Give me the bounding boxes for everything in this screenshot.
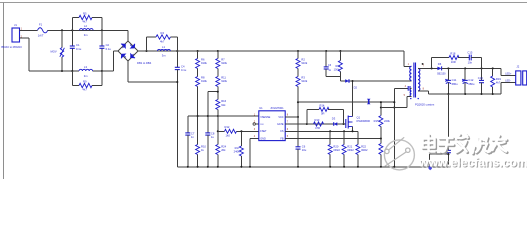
node: bottom rail junctions (61, 70, 63, 72)
wire: column R6/R8 down to R10 (197, 87, 199, 145)
svg-text:MOV: MOV (51, 50, 57, 54)
svg-text:GND: GND (260, 137, 266, 140)
connector J1 (1, 23, 22, 49)
svg-text:R15: R15 (374, 119, 379, 123)
wire: FB/aux lower horizontal (381, 107, 407, 109)
wire: aux bottom return (407, 97, 412, 108)
svg-text:R19: R19 (496, 77, 501, 81)
net flag on VCC bus (367, 99, 371, 105)
wire: right X-cap column vertical (101, 18, 103, 72)
resistor R1 (100k clamp) (334, 51, 343, 77)
node: VCC pin junction (297, 116, 299, 118)
svg-text:IPA60R600: IPA60R600 (357, 119, 371, 123)
resistor R20 (0R22 sense) (328, 131, 340, 167)
svg-text:SB2100: SB2100 (437, 73, 446, 76)
node: fuse/MOV junction (61, 29, 63, 31)
svg-text:R12: R12 (225, 125, 230, 129)
capacitor C8 (1u) (205, 116, 215, 167)
svg-text:Q1: Q1 (357, 115, 361, 119)
wire: bus corner to transformer pin 1 (404, 51, 412, 66)
transformer T1 secondary winding (418, 68, 420, 90)
svg-text:1A/T: 1A/T (38, 34, 44, 38)
wire: FB row to R15 (285, 138, 381, 140)
resistor R12 (1k0) on FSET row (218, 125, 259, 138)
sheet frame left line (3, 3, 5, 180)
svg-text:10n: 10n (468, 60, 473, 64)
wire: secondary top to output (418, 67, 437, 69)
svg-text:LED+: LED+ (505, 73, 512, 76)
fuse F1 (38, 22, 48, 37)
capacitor C13 (100n) (478, 68, 484, 94)
svg-text:680u: 680u (452, 82, 458, 86)
resistor R8 (910k) (196, 69, 208, 87)
svg-text:0R22: 0R22 (333, 148, 340, 152)
varistor MOV (51, 48, 65, 58)
svg-text:R17: R17 (235, 146, 240, 150)
svg-text:R13: R13 (315, 118, 320, 122)
svg-text:C8: C8 (211, 131, 215, 135)
capacitor C14 (Y-cap) (446, 94, 451, 167)
svg-text:4k7: 4k7 (83, 88, 88, 92)
resistor R17 (240k) (234, 131, 244, 167)
resistor R15 (220k) (374, 102, 391, 167)
wire: aux cap column down to ground (393, 88, 395, 167)
svg-text:910k: 910k (221, 79, 227, 83)
watermark chinese characters (423, 135, 508, 155)
node: CS row junctions (329, 130, 331, 132)
resistor R3 (910k startup) (296, 69, 308, 87)
transformer T1 auxiliary winding (410, 88, 411, 96)
capacitor C6 (10n VCC decoupling) (296, 117, 307, 167)
svg-text:C15: C15 (467, 51, 472, 55)
node: VSENSE net junctions (197, 115, 199, 117)
wire: LED+ feed to J2 (501, 68, 516, 75)
wire: clamp bottom node (326, 77, 340, 82)
svg-text:R4: R4 (161, 31, 165, 35)
svg-text:L2: L2 (84, 24, 87, 28)
capacitor C4 (0.1u bus filter) (175, 51, 187, 167)
wire: drain line to transformer primary (340, 80, 411, 82)
node: top X-cap junction (71, 29, 73, 31)
resistor R16 (91k) (216, 87, 227, 110)
svg-text:R11: R11 (221, 76, 226, 80)
svg-text:C13: C13 (478, 76, 483, 80)
wire: ground jog to Y-cap column (430, 154, 449, 167)
resistor R17 (24k) (216, 144, 227, 166)
svg-text:L1: L1 (162, 45, 165, 49)
svg-text:R8: R8 (201, 76, 205, 80)
svg-text:GATE: GATE (277, 123, 284, 126)
svg-text:D3: D3 (332, 116, 336, 120)
svg-text:R24: R24 (221, 144, 226, 148)
svg-text:R14: R14 (320, 103, 325, 107)
node: no-connect circle on pin2 (253, 123, 259, 125)
wire: primary ground bus (177, 166, 448, 168)
node: gate network nodes (306, 123, 308, 125)
svg-text:4k7: 4k7 (160, 40, 165, 44)
svg-text:FB: FB (280, 137, 284, 140)
node: col2 junctions (217, 91, 219, 93)
wire: AC neutral bottom rail (20, 38, 114, 71)
capacitor C15 (output snubber) (467, 51, 481, 69)
node: ground bus junctions (187, 166, 189, 168)
svg-text:0.1u: 0.1u (76, 47, 82, 51)
svg-text:0R: 0R (321, 112, 324, 116)
svg-text:R10: R10 (201, 144, 206, 148)
capacitor C11 (680u electrolytic) (445, 68, 458, 94)
watermark logo circle (384, 137, 414, 170)
inductor L1 (3m) (158, 45, 171, 58)
resistor R6 (910k) (196, 51, 208, 69)
wire: left X-cap column vertical (71, 18, 73, 72)
svg-text:4k7: 4k7 (83, 20, 88, 24)
resistor R4 (4k7 parallel with L1) (147, 31, 178, 51)
resistor R2 (910k startup) (296, 51, 308, 69)
svg-text:VCC: VCC (278, 116, 283, 119)
svg-text:ZXLM7001: ZXLM7001 (271, 106, 285, 110)
svg-text:R7: R7 (221, 58, 225, 62)
svg-text:R22: R22 (361, 144, 366, 148)
svg-text:C12: C12 (468, 78, 473, 82)
svg-text:PQ2620 custom: PQ2620 custom (415, 103, 435, 107)
watermark url text (418, 155, 527, 170)
resistor R11 (910k) (216, 69, 228, 87)
svg-text:4k7: 4k7 (496, 81, 501, 85)
svg-text:R6: R6 (201, 58, 205, 62)
svg-text:10u: 10u (302, 148, 307, 152)
svg-text:0.1u: 0.1u (181, 68, 187, 72)
resistor R5 (4k7 damping, top) (72, 11, 102, 23)
wire: MOSFET source to CS row (352, 127, 354, 132)
capacitor C1 (X-cap 0.1u) (70, 43, 82, 51)
svg-text:R21: R21 (347, 144, 352, 148)
svg-text:47R: 47R (315, 126, 320, 130)
node: bridge DC- joins C4 column (176, 81, 178, 83)
svg-text:910k: 910k (221, 61, 227, 65)
resistor R10 (1k) (196, 144, 207, 166)
resistor R7 (910k) (216, 51, 228, 69)
svg-text:1k0: 1k0 (226, 134, 231, 138)
node: output rail junctions (431, 67, 433, 69)
svg-text:0R22: 0R22 (361, 148, 368, 152)
wire: MOSFET drain vertical to drain line (352, 81, 354, 117)
resistor R21 (0R22 sense) (342, 131, 354, 167)
svg-text:R2: R2 (301, 58, 305, 62)
capacitor C2 (X-cap 0.1u) (99, 43, 111, 51)
wire: CS row (285, 130, 358, 132)
svg-text:D2: D2 (354, 85, 358, 89)
capacitor C12 (680u electrolytic) (462, 68, 475, 94)
node: aux column junctions (393, 101, 395, 103)
svg-text:C7: C7 (191, 131, 195, 135)
wire: filter to bridge AC top (127, 30, 129, 41)
svg-text:LED-: LED- (505, 80, 511, 83)
bridge rectifier DB1-DB4 (118, 41, 152, 65)
node: return rail junctions (447, 93, 449, 95)
wire: output positive rail (442, 67, 501, 69)
svg-text:10R: 10R (451, 60, 456, 64)
node: FSET junction (240, 130, 242, 132)
svg-text:R18: R18 (450, 51, 455, 55)
svg-text:R16: R16 (221, 99, 226, 103)
node: chain crosses VCC bus (297, 101, 299, 103)
wire: LED- feed to J2 (501, 82, 516, 94)
inductor L3 (3m, bottom) (79, 65, 93, 78)
wire: main DC bus rail (138, 50, 404, 52)
resistor R18 (output snubber) (432, 51, 470, 68)
capacitor C7 (1n) (185, 116, 195, 167)
capacitor C5 (aux coupling) (394, 86, 411, 91)
svg-text:CS: CS (280, 130, 284, 133)
inductor L2 (3m, top) (80, 24, 94, 37)
connector J2 (516, 65, 527, 85)
op-amp U1 controller IC (259, 106, 285, 141)
svg-text:91k: 91k (221, 103, 226, 107)
transformer T1 primary winding (410, 66, 412, 80)
svg-text:C2: C2 (106, 43, 110, 47)
wire: GATE row to MOSFET (285, 123, 346, 125)
wire: bottom rail to bridge AC left (113, 51, 118, 71)
node: jog junctions (447, 153, 449, 155)
wire: bridge DC- down to ground (128, 61, 177, 82)
svg-text:680u: 680u (468, 82, 474, 86)
wire: MOV branch vertical (61, 30, 63, 71)
node: filter output top junction (101, 29, 103, 31)
svg-text:910k: 910k (201, 61, 207, 65)
node: drain junction (351, 80, 353, 82)
svg-text:20k: 20k (221, 148, 226, 152)
resistor R13 (47R gate) (314, 118, 324, 130)
resistor R14 (0R gate bypass branch) (307, 103, 344, 124)
svg-text:240k: 240k (234, 150, 240, 154)
svg-text:DB1 to DB4: DB1 to DB4 (137, 61, 152, 65)
diode D6 (output rectifier) (437, 62, 446, 75)
svg-text:910k: 910k (301, 79, 307, 83)
wire: VSENSE net to IC pin1 (188, 115, 259, 117)
wire: column R16 down to R24 (217, 110, 219, 145)
wire: R16 bypass jog (208, 92, 218, 116)
svg-text:R3: R3 (301, 76, 305, 80)
ground net flag (428, 166, 431, 171)
svg-text:U1: U1 (259, 106, 263, 110)
resistor R19 (bleeder) (491, 68, 502, 94)
sheet frame top line (0, 2, 527, 4)
transformer T1 core (414, 63, 416, 98)
resistor R9 (4k7 damping, bottom) (72, 71, 102, 92)
svg-text:1n: 1n (191, 135, 194, 139)
svg-text:C6: C6 (302, 144, 306, 148)
svg-text:R5: R5 (83, 11, 87, 15)
svg-text:J1: J1 (14, 23, 17, 27)
wire: VCC/aux bus horizontal (299, 101, 394, 103)
svg-text:D6: D6 (438, 62, 442, 66)
svg-text:85VAC to 265VAC: 85VAC to 265VAC (1, 45, 22, 49)
wire: J1 pin1 to fuse F1 (20, 29, 38, 31)
svg-text:VSENSE: VSENSE (260, 116, 270, 119)
wire: secondary bottom to output return (418, 91, 501, 94)
svg-text:www.elecfans.com: www.elecfans.com (418, 155, 527, 169)
diode D3 (gate row) (332, 116, 338, 126)
svg-text:R9: R9 (83, 79, 87, 83)
svg-text:910k: 910k (301, 61, 307, 65)
svg-text:0R22: 0R22 (347, 148, 354, 152)
svg-text:1u: 1u (211, 135, 214, 139)
resistor R22 (0R22 sense) (356, 131, 368, 167)
capacitor C3 (1n clamp) (324, 51, 332, 77)
node: bus junctions (145, 50, 147, 52)
svg-text:L3: L3 (84, 65, 87, 69)
svg-text:n.c.: n.c. (260, 123, 264, 126)
transistor Q1 power MOSFET (346, 115, 371, 128)
svg-text:J2: J2 (516, 65, 519, 69)
transformer phase dots (410, 98, 411, 99)
svg-text:910k: 910k (201, 79, 207, 83)
diode D2 (clamp) (345, 79, 357, 89)
svg-text:R20: R20 (333, 144, 338, 148)
svg-text:220k: 220k (384, 119, 390, 123)
svg-text:100k: 100k (334, 69, 340, 72)
svg-text:C4: C4 (181, 64, 185, 68)
svg-text:F1: F1 (39, 22, 43, 26)
node: R15 junctions (380, 101, 382, 103)
svg-text:FSET: FSET (260, 130, 267, 133)
svg-text:C11: C11 (452, 78, 457, 82)
svg-text:C1: C1 (76, 43, 80, 47)
wire: fuse to EMI filter top (48, 29, 128, 31)
wire: IC GND pin4 to ground bus (250, 139, 259, 167)
svg-text:0.1u: 0.1u (106, 47, 112, 51)
wire: startup chain to VCC pin (285, 87, 298, 118)
